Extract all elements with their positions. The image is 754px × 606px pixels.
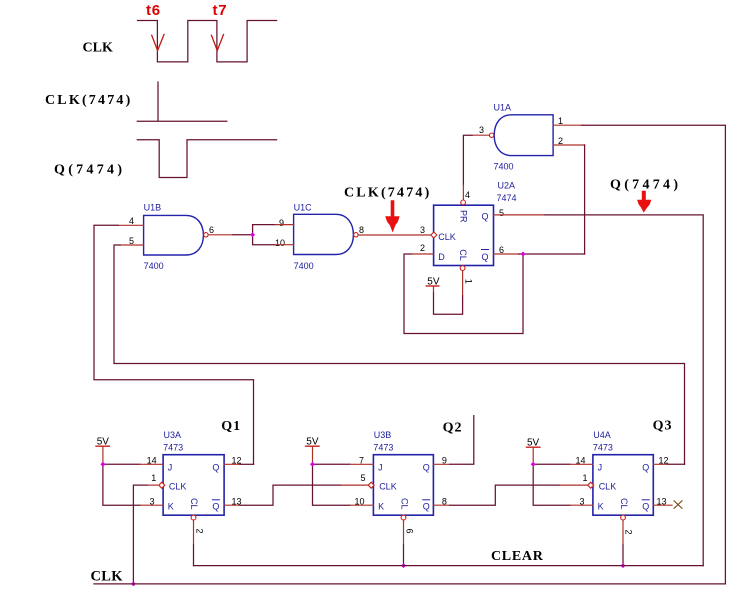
svg-text:10: 10 — [275, 238, 285, 248]
junction node U3B CL on CLEAR bus — [401, 563, 406, 568]
D flip-flop U2A box — [434, 205, 494, 265]
svg-text:Q: Q — [642, 502, 649, 512]
JK flip-flop U3A box — [163, 455, 224, 516]
nand gate U1B body — [144, 215, 204, 255]
U3A clock wedge — [159, 482, 165, 488]
junction node U4A 5V — [531, 462, 536, 467]
svg-text:CLK(7474): CLK(7474) — [344, 186, 431, 201]
svg-text:U4A: U4A — [593, 430, 611, 440]
wire U1B output 6 to U1C inputs — [208, 234, 233, 236]
red block arrow at CLK(7474) — [385, 200, 399, 232]
svg-text:3: 3 — [479, 125, 484, 135]
JK flip-flop U3B box — [373, 455, 433, 516]
svg-text:t7: t7 — [213, 2, 228, 19]
svg-text:5: 5 — [499, 208, 504, 218]
svg-text:7473: 7473 — [163, 443, 183, 453]
svg-text:U2A: U2A — [498, 181, 516, 191]
svg-text:7400: 7400 — [294, 261, 314, 271]
U2A clock wedge — [431, 232, 437, 238]
nand gate U1A body (mirrored) — [494, 115, 553, 156]
svg-text:U3B: U3B — [374, 430, 392, 440]
wire U4A CL pin 2 to CLEAR bus — [622, 520, 624, 545]
U2A PR bubble pin 4 — [461, 200, 466, 205]
svg-text:U1B: U1B — [144, 203, 162, 213]
junction node at U1C inputs — [250, 232, 255, 237]
wire U3A 5V to J and K — [102, 446, 104, 464]
U1C output bubble — [354, 233, 358, 237]
U2A CL bubble pin 1 — [460, 266, 465, 271]
junction node CLK bus — [131, 581, 136, 586]
wire U1C output 8 to U2A CLK pin 3 — [358, 234, 431, 236]
junction node at U2A Qbar — [521, 252, 526, 257]
U1A output bubble — [489, 133, 493, 137]
svg-text:Q(7474): Q(7474) — [54, 163, 125, 178]
svg-text:CLK(7474): CLK(7474) — [45, 93, 132, 108]
wire U4A 5V to J and K — [532, 447, 534, 464]
svg-text:8: 8 — [359, 225, 364, 235]
svg-text:Q1: Q1 — [221, 419, 241, 434]
svg-text:K: K — [378, 502, 384, 512]
JK flip-flop U4A box — [593, 455, 653, 516]
svg-text:Q: Q — [423, 502, 430, 512]
svg-text:Q: Q — [642, 463, 649, 473]
svg-text:CLK: CLK — [83, 41, 113, 56]
svg-text:6: 6 — [209, 225, 214, 235]
wire U2A Qbar pin 6 net — [494, 253, 520, 255]
U1B output bubble — [204, 233, 208, 237]
wire U1A pin 1 to CLK bus (right side) — [553, 124, 582, 126]
U3B clock wedge — [368, 482, 374, 488]
svg-text:CLK: CLK — [379, 482, 397, 492]
CLEAR bus wire — [194, 565, 704, 567]
svg-text:Q: Q — [482, 252, 489, 262]
svg-text:2: 2 — [195, 528, 205, 533]
svg-text:6: 6 — [405, 528, 415, 533]
wire U3A CL pin 2 to CLEAR bus — [193, 520, 195, 545]
svg-text:4: 4 — [465, 190, 470, 200]
svg-text:7400: 7400 — [494, 162, 514, 172]
svg-text:CLK: CLK — [599, 482, 617, 492]
wire U3B Qbar pin 8 to U4A CLK — [433, 504, 450, 506]
wire U2A Q pin 5 to CLEAR bus (right side) — [494, 214, 546, 216]
svg-text:K: K — [168, 502, 174, 512]
red falling-edge marker t6 — [152, 35, 164, 51]
svg-text:CL: CL — [619, 498, 629, 510]
svg-text:Q: Q — [423, 463, 430, 473]
wire U1B pin5 net from Q3 — [120, 244, 144, 246]
svg-text:7473: 7473 — [373, 443, 393, 453]
svg-text:Q: Q — [212, 502, 219, 512]
wire U3A Q pin 12 stub — [224, 463, 240, 465]
svg-text:CL: CL — [458, 249, 468, 261]
svg-text:1: 1 — [558, 116, 563, 126]
wire U3A CLK pin 1 from CLK bus — [147, 484, 158, 486]
wire U4A Q pin 12 stub (Q3) — [653, 463, 668, 465]
wire U3A Qbar pin 13 to U3B CLK — [224, 504, 240, 506]
wire U3B CL pin 6 to CLEAR bus — [403, 520, 405, 545]
no-connect X mark — [674, 501, 682, 509]
svg-text:4: 4 — [129, 216, 134, 226]
svg-text:1: 1 — [151, 473, 156, 483]
wire U2A CL pin 1 to 5V — [462, 271, 464, 297]
svg-text:U3A: U3A — [164, 430, 182, 440]
wire U3B Q pin 9 stub (Q2) — [433, 463, 450, 465]
svg-text:Q: Q — [482, 212, 489, 222]
svg-text:t6: t6 — [146, 2, 161, 19]
svg-text:CLK: CLK — [91, 569, 124, 585]
svg-text:Q2: Q2 — [443, 421, 463, 436]
red block arrow at Q(7474) — [637, 191, 651, 213]
wire U1A output 3 to U2A PR pin 4 — [472, 134, 489, 136]
svg-text:K: K — [598, 502, 604, 512]
U3A CL bubble — [191, 515, 196, 520]
svg-text:Q3: Q3 — [653, 419, 673, 434]
svg-text:CLK: CLK — [438, 232, 456, 242]
svg-text:Q(7474): Q(7474) — [610, 178, 681, 193]
svg-text:2: 2 — [624, 529, 634, 534]
U3B CL bubble — [401, 515, 406, 520]
svg-text:3: 3 — [420, 225, 425, 235]
svg-text:J: J — [598, 463, 603, 473]
svg-text:CL: CL — [399, 498, 409, 510]
svg-text:D: D — [438, 252, 445, 262]
svg-text:Q: Q — [212, 463, 219, 473]
svg-text:PR: PR — [458, 210, 468, 223]
wire U4A Qbar pin 13 no-connect — [653, 504, 672, 506]
junction node U4A CL on CLEAR bus — [621, 563, 626, 568]
svg-text:1: 1 — [464, 279, 474, 284]
junction node U3A 5V — [100, 462, 105, 467]
svg-text:J: J — [168, 463, 173, 473]
red falling-edge marker t7 — [211, 35, 223, 51]
svg-text:U1C: U1C — [294, 203, 313, 213]
svg-text:7400: 7400 — [144, 261, 164, 271]
svg-text:U1A: U1A — [494, 103, 512, 113]
waveform Q(7474) trace — [137, 140, 276, 178]
svg-text:7474: 7474 — [497, 193, 517, 203]
svg-text:1: 1 — [583, 473, 588, 483]
svg-text:2: 2 — [420, 243, 425, 253]
nand gate U1C body — [294, 214, 354, 254]
svg-text:5: 5 — [361, 473, 366, 483]
svg-text:CLK: CLK — [169, 482, 187, 492]
svg-text:9: 9 — [279, 218, 284, 228]
CLK bus wire — [94, 583, 725, 585]
waveform CLK trace — [138, 21, 277, 62]
svg-text:CL: CL — [189, 498, 199, 510]
svg-text:J: J — [378, 463, 383, 473]
U4A clock wedge — [588, 482, 594, 488]
svg-text:CLEAR: CLEAR — [491, 549, 544, 564]
junction node U3B 5V — [310, 462, 315, 467]
svg-text:7473: 7473 — [593, 443, 613, 453]
wire U1B pin4 net from Q1 — [118, 224, 144, 226]
wire U3B 5V to J and K — [312, 446, 314, 464]
waveform CLK(7474) trace — [137, 82, 227, 121]
U4A CL bubble — [621, 515, 626, 520]
wire U1A pin 2 to Qbar net — [553, 144, 585, 146]
